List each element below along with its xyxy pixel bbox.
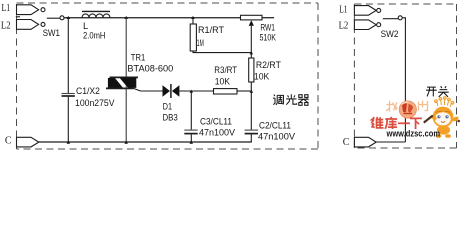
node junction R2/C2 [250,90,254,93]
wire C1 column [67,18,69,93]
svg-text:TR1: TR1 [131,52,145,62]
faint orange search text [386,101,428,112]
inductor L coil [82,11,110,17]
svg-text:L1: L1 [339,5,347,16]
capacitor C1 [62,94,75,97]
node junction R1 top [191,16,195,19]
svg-text:C3/CL11: C3/CL11 [200,117,232,127]
label 开关 (switch) hand-drawn [426,86,449,97]
svg-text:C: C [5,136,12,147]
wire R2 bottom lead [250,82,252,91]
svg-text:C2/CL11: C2/CL11 [259,120,291,130]
svg-text:DB3: DB3 [163,112,178,122]
wire C2 bottom lead [250,134,252,142]
terminal L1 (right) [354,6,380,16]
svg-text:D1: D1 [163,102,172,112]
node junction gate/C3 [190,90,194,93]
switch module dashed border [354,4,456,148]
svg-text:SW2: SW2 [381,29,399,39]
svg-text:C1/X2: C1/X2 [76,86,100,96]
dimmer module dashed border [17,3,319,149]
svg-text:SW1: SW1 [43,28,60,38]
svg-text:RW1: RW1 [260,23,275,33]
label 调光器 (dimmer) hand-drawn [273,94,309,105]
wire R3 to node [237,90,251,92]
diac D1 [163,84,180,98]
border stub [16,16,20,18]
svg-text:BTA08-600: BTA08-600 [127,63,173,73]
node junction triac bottom [124,141,128,144]
node junction triac top [124,16,128,19]
wire C2 top lead [250,91,252,130]
svg-text:R2/RT: R2/RT [256,60,281,70]
svg-text:C: C [343,137,350,148]
wire top right of RW1 [262,17,274,19]
wire bottom right module [376,141,405,143]
node junction C1 bottom [67,141,71,144]
wire C1 bottom lead [67,97,69,142]
wire C3 bottom lead [190,134,192,142]
wire R1 bottom to R2 top [193,51,251,53]
svg-text:L1: L1 [2,3,11,14]
switch SW2 [383,16,402,20]
terminal L1 (left) [17,5,46,15]
svg-text:www.dzsc.com: www.dzsc.com [386,129,440,139]
watermark dzsc logo [371,96,460,138]
wire C3 top lead [190,91,192,130]
wire diac to R3 [179,90,213,92]
capacitor C3 [184,130,197,134]
svg-text:10K: 10K [254,72,270,82]
resistor R1 [190,24,196,51]
mascot [423,96,460,138]
resistor R3 [214,89,238,94]
terminal C (left) [17,137,39,147]
node junction C3 bottom [190,141,194,144]
wire SW2 to down [402,18,405,142]
wire top main [64,17,240,19]
svg-text:1M: 1M [197,38,204,48]
terminal L2 (left) [17,20,46,30]
wire R1 top lead [192,18,194,24]
badge circle [399,101,417,119]
resistor R2 [249,58,254,82]
switch SW1 [47,16,64,20]
wire gate to diac [141,90,163,92]
svg-text:510K: 510K [260,33,277,43]
svg-text:L2: L2 [339,20,349,31]
svg-text:2.0mH: 2.0mH [83,30,105,40]
svg-text:10K: 10K [215,77,231,87]
triac TR1 [106,77,138,89]
svg-text:R3/RT: R3/RT [214,65,237,75]
wire triac gate [134,88,141,91]
wire triac MT1 lead [125,18,127,78]
svg-text:47n100V: 47n100V [258,131,296,141]
node junction R1/RW1 [250,51,254,54]
wire triac MT2 lead [125,88,127,142]
potentiometer RW1 [241,15,263,52]
svg-text:L2: L2 [1,21,11,32]
capacitor C2 [245,130,258,134]
terminal C (right) [354,137,376,147]
wire bottom main [39,141,252,143]
terminal L2 (right) [354,20,380,30]
wire to R2 [250,53,252,58]
svg-text:100n275V: 100n275V [75,98,115,108]
node junction C1 top [67,16,71,19]
red text 维库一下 [371,117,422,129]
svg-text:47n100V: 47n100V [199,128,236,138]
svg-text:R1/RT: R1/RT [198,25,224,35]
